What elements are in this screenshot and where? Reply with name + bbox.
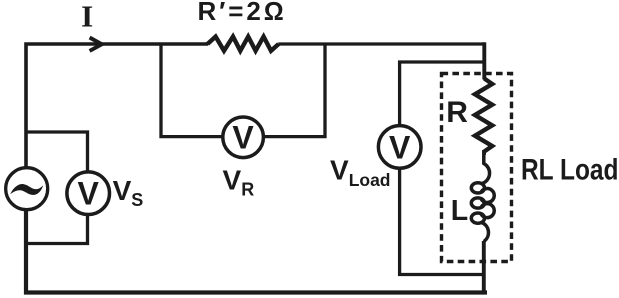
svg-text:R′=2Ω: R′=2Ω: [197, 0, 286, 26]
svg-text:RL Load: RL Load: [521, 153, 619, 186]
svg-text:V: V: [389, 129, 411, 165]
svg-text:V: V: [78, 176, 100, 212]
svg-text:L: L: [451, 195, 468, 227]
svg-text:I: I: [81, 0, 93, 34]
svg-text:R: R: [446, 96, 468, 129]
svg-text:V: V: [232, 120, 254, 156]
